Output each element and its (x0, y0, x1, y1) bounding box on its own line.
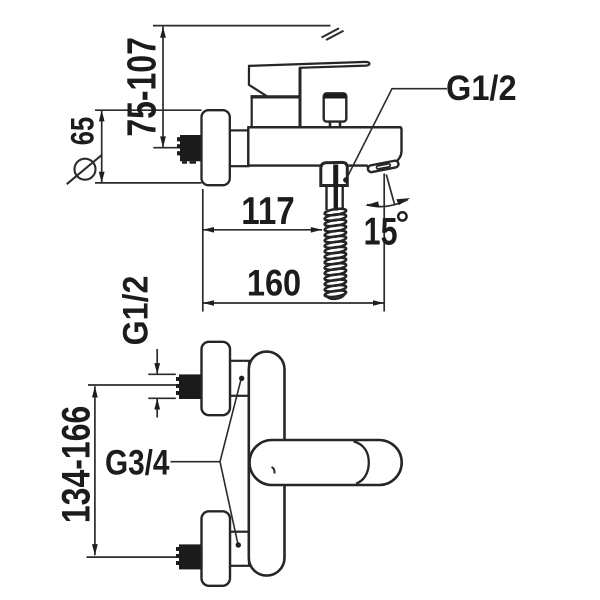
svg-text:G1/2: G1/2 (446, 69, 517, 108)
svg-text:65: 65 (66, 117, 101, 145)
svg-text:134-166: 134-166 (53, 406, 98, 523)
svg-text:117: 117 (241, 188, 294, 232)
svg-text:160: 160 (247, 263, 301, 304)
svg-text:G1/2: G1/2 (117, 276, 156, 346)
svg-text:G3/4: G3/4 (105, 443, 169, 482)
svg-text:15: 15 (364, 210, 398, 253)
svg-text:75-107: 75-107 (119, 37, 165, 137)
